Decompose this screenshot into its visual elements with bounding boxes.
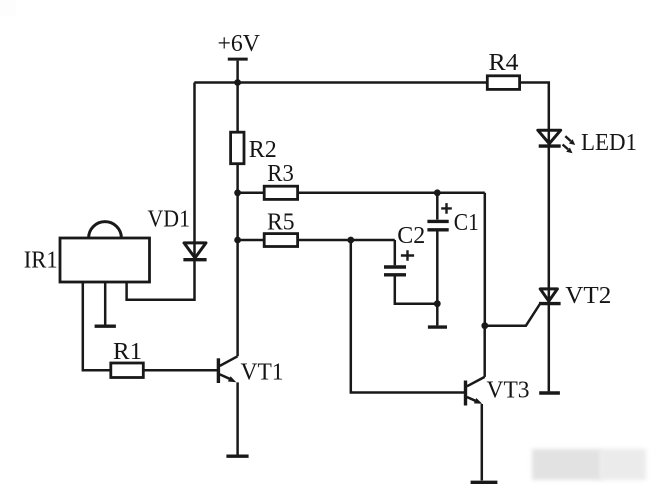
power +6V terminal — [228, 59, 248, 82]
capacitor C2 — [384, 240, 437, 304]
wire VT1 emitter down — [236, 382, 239, 454]
wire R3 left lead — [238, 192, 265, 195]
svg-text:VD1: VD1 — [148, 207, 191, 233]
label C1 plus — [441, 203, 452, 214]
wire top rail — [194, 81, 487, 84]
node capacitor junction — [434, 300, 441, 307]
svg-text:LED1: LED1 — [581, 130, 637, 156]
ground VT2 cathode branch — [539, 391, 560, 394]
wire IR1 left pin to R1 — [83, 283, 111, 370]
resistor R4 — [487, 76, 519, 90]
wire R5 node to VT1 collector — [236, 240, 239, 356]
wire R5 left lead — [238, 239, 265, 242]
node R3 tap — [234, 189, 241, 196]
label C2 plus — [401, 250, 414, 261]
IR receiver IR1 dome — [89, 222, 122, 238]
svg-text:VT3: VT3 — [487, 378, 530, 404]
capacitor C1 — [427, 193, 448, 304]
wire down to gate node — [484, 193, 487, 326]
node R5 tap — [234, 237, 241, 244]
wire VT3 emitter down — [481, 404, 484, 480]
watermark — [532, 449, 646, 480]
wire gate node to VT3 collector — [483, 326, 486, 377]
svg-text:R2: R2 — [249, 137, 277, 163]
wire VT3 base branch — [351, 240, 464, 393]
wire R3 node to R5 node — [236, 193, 239, 240]
svg-text:C2: C2 — [397, 223, 425, 249]
svg-text:R1: R1 — [113, 339, 142, 365]
wire gate node to VT2 gate — [485, 304, 540, 326]
node VT3 base tap — [347, 237, 354, 244]
transistor VT3 — [466, 377, 485, 406]
wire left branch to VD1 and IR1 pin3 — [127, 83, 195, 300]
wire R5 right lead to C2 — [298, 239, 395, 242]
ground capacitor branch — [428, 325, 447, 328]
svg-text:R5: R5 — [267, 210, 295, 236]
wire IR1 middle pin — [104, 283, 107, 325]
svg-text:C1: C1 — [454, 210, 479, 236]
ground IR1 middle pin — [95, 325, 116, 328]
node at +6V on rail — [234, 79, 241, 86]
LED1 emission arrows — [563, 136, 576, 153]
wire R2 to R3 node — [236, 164, 239, 193]
wire R1 to VT1 base — [143, 369, 217, 372]
resistor R3 — [264, 186, 297, 199]
resistor R5 — [264, 234, 297, 247]
ground VT1 emitter — [226, 455, 248, 458]
svg-text:VT1: VT1 — [241, 360, 284, 386]
wire R3 right lead to corner — [298, 192, 485, 195]
wire R4 to right branch down — [520, 83, 549, 392]
resistor R2 — [231, 132, 244, 164]
node C1 top — [434, 189, 441, 196]
ground VT3 emitter — [471, 481, 498, 484]
wire main vertical from rail to R2 — [236, 83, 239, 133]
wire capacitor junction down — [436, 304, 439, 326]
diode VD1 — [183, 243, 206, 260]
node VT2 gate junction — [481, 322, 488, 329]
svg-text:R4: R4 — [489, 50, 519, 76]
svg-text:+6V: +6V — [218, 31, 261, 57]
IR receiver IR1 body — [60, 238, 150, 282]
LED LED1 — [538, 130, 561, 146]
svg-text:IR1: IR1 — [24, 248, 58, 274]
resistor R1 — [111, 363, 144, 378]
thyristor VT2 — [539, 289, 561, 304]
transistor VT1 — [218, 356, 237, 383]
svg-text:VT2: VT2 — [565, 283, 611, 309]
svg-text:R3: R3 — [267, 161, 294, 187]
